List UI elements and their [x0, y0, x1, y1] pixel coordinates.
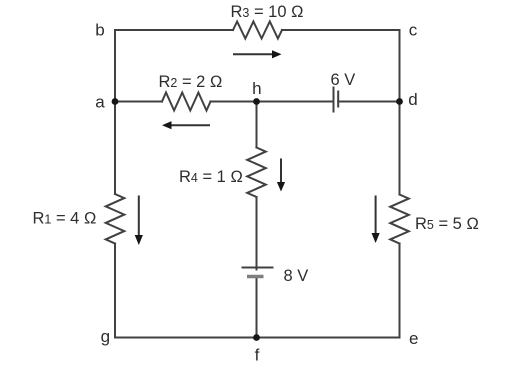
current arrow down beside R4	[277, 159, 285, 192]
svg-text:R3 = 10 Ω: R3 = 10 Ω	[231, 3, 304, 21]
wire a down to R1	[114, 102, 116, 195]
svg-text:8 V: 8 V	[284, 267, 309, 285]
svg-text:e: e	[409, 329, 418, 348]
resistor R3	[233, 22, 282, 39]
svg-text:6 V: 6 V	[331, 71, 356, 89]
battery V1 6V long plate	[333, 88, 335, 112]
wire a to R2	[115, 101, 162, 103]
svg-text:R1 = 4 Ω: R1 = 4 Ω	[33, 210, 97, 228]
current arrow right under R3	[233, 50, 282, 58]
wire left rail b-a	[114, 30, 116, 102]
wire d down to R5	[399, 102, 401, 195]
svg-text:R2 = 2 Ω: R2 = 2 Ω	[159, 73, 223, 91]
wire R4 to battery 8V	[256, 197, 258, 270]
wire R1 to g	[114, 244, 116, 338]
node f junction dot	[253, 334, 260, 341]
svg-text:h: h	[252, 79, 261, 98]
current arrow down beside R5	[372, 196, 380, 244]
node a junction dot	[112, 98, 119, 105]
wire battery 6V to d	[338, 101, 399, 103]
current arrow down beside R1	[135, 196, 143, 246]
svg-text:R5 = 5 Ω: R5 = 5 Ω	[415, 215, 479, 233]
node h junction dot	[253, 98, 260, 105]
svg-text:a: a	[95, 93, 105, 112]
resistor R5	[390, 195, 409, 244]
current arrow left under R2	[162, 121, 210, 129]
battery V2 8V short plate	[247, 275, 264, 279]
svg-text:b: b	[95, 21, 104, 40]
resistor R2	[162, 93, 211, 111]
wire h down to R4	[256, 102, 258, 148]
svg-text:c: c	[409, 21, 418, 40]
svg-text:g: g	[101, 327, 110, 346]
battery V2 8V long plate	[243, 267, 273, 269]
battery V1 6V short plate	[337, 92, 339, 107]
wire top b-c with R3	[115, 29, 233, 31]
wire right rail c-d	[399, 30, 401, 102]
wire battery 8V to f	[256, 277, 258, 338]
wire R5 to e	[399, 244, 401, 338]
resistor R1	[106, 194, 125, 244]
wire R2 to battery 6V	[211, 101, 334, 103]
node d junction dot	[396, 98, 403, 105]
svg-text:R4 = 1 Ω: R4 = 1 Ω	[179, 168, 243, 186]
svg-text:f: f	[255, 346, 260, 365]
svg-text:d: d	[408, 90, 417, 109]
wire top right to c	[282, 29, 400, 31]
wire bottom g-f-e	[115, 337, 400, 339]
resistor R4	[247, 148, 266, 198]
